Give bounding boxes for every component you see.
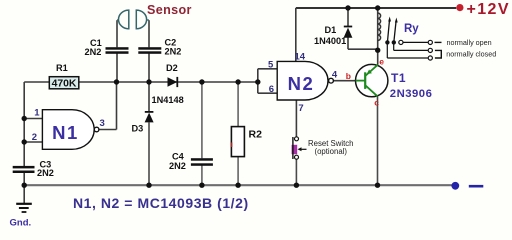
svg-text:D1: D1 [325,25,337,35]
svg-text:2N2: 2N2 [37,168,54,178]
svg-text:2: 2 [32,132,37,143]
svg-text:1N4001: 1N4001 [314,36,346,46]
svg-text:2N2: 2N2 [169,161,186,171]
svg-text:14: 14 [295,52,306,63]
svg-text:Ry: Ry [404,23,419,35]
svg-text:D3: D3 [132,124,144,134]
svg-text:2N2: 2N2 [165,47,182,57]
svg-text:7: 7 [298,103,303,114]
svg-text:N2: N2 [288,73,315,94]
svg-text:b: b [346,71,351,81]
svg-text:R2: R2 [249,129,263,141]
svg-text:e: e [379,57,384,67]
svg-text:4: 4 [332,70,338,81]
svg-text:T1: T1 [391,71,406,85]
svg-text:6: 6 [269,84,274,95]
svg-text:+12V: +12V [467,1,510,18]
svg-text:N1: N1 [52,122,79,143]
svg-text:1: 1 [34,107,40,118]
svg-text:2N3906: 2N3906 [390,88,433,100]
svg-text:c: c [374,98,379,108]
svg-text:D2: D2 [166,63,178,73]
svg-text:normally closed: normally closed [446,50,496,59]
svg-text:2N2: 2N2 [85,47,102,57]
svg-text:R1: R1 [56,63,68,73]
svg-text:5: 5 [268,59,274,70]
svg-text:1N4148: 1N4148 [152,95,184,105]
svg-text:470K: 470K [52,78,77,89]
svg-text:normally open: normally open [447,38,492,47]
svg-text:N1, N2 = MC14093B (1/2): N1, N2 = MC14093B (1/2) [73,195,249,211]
svg-text:(optional): (optional) [315,147,348,156]
svg-text:Gnd.: Gnd. [10,218,32,229]
svg-text:Sensor: Sensor [147,3,192,17]
svg-text:3: 3 [100,118,105,129]
